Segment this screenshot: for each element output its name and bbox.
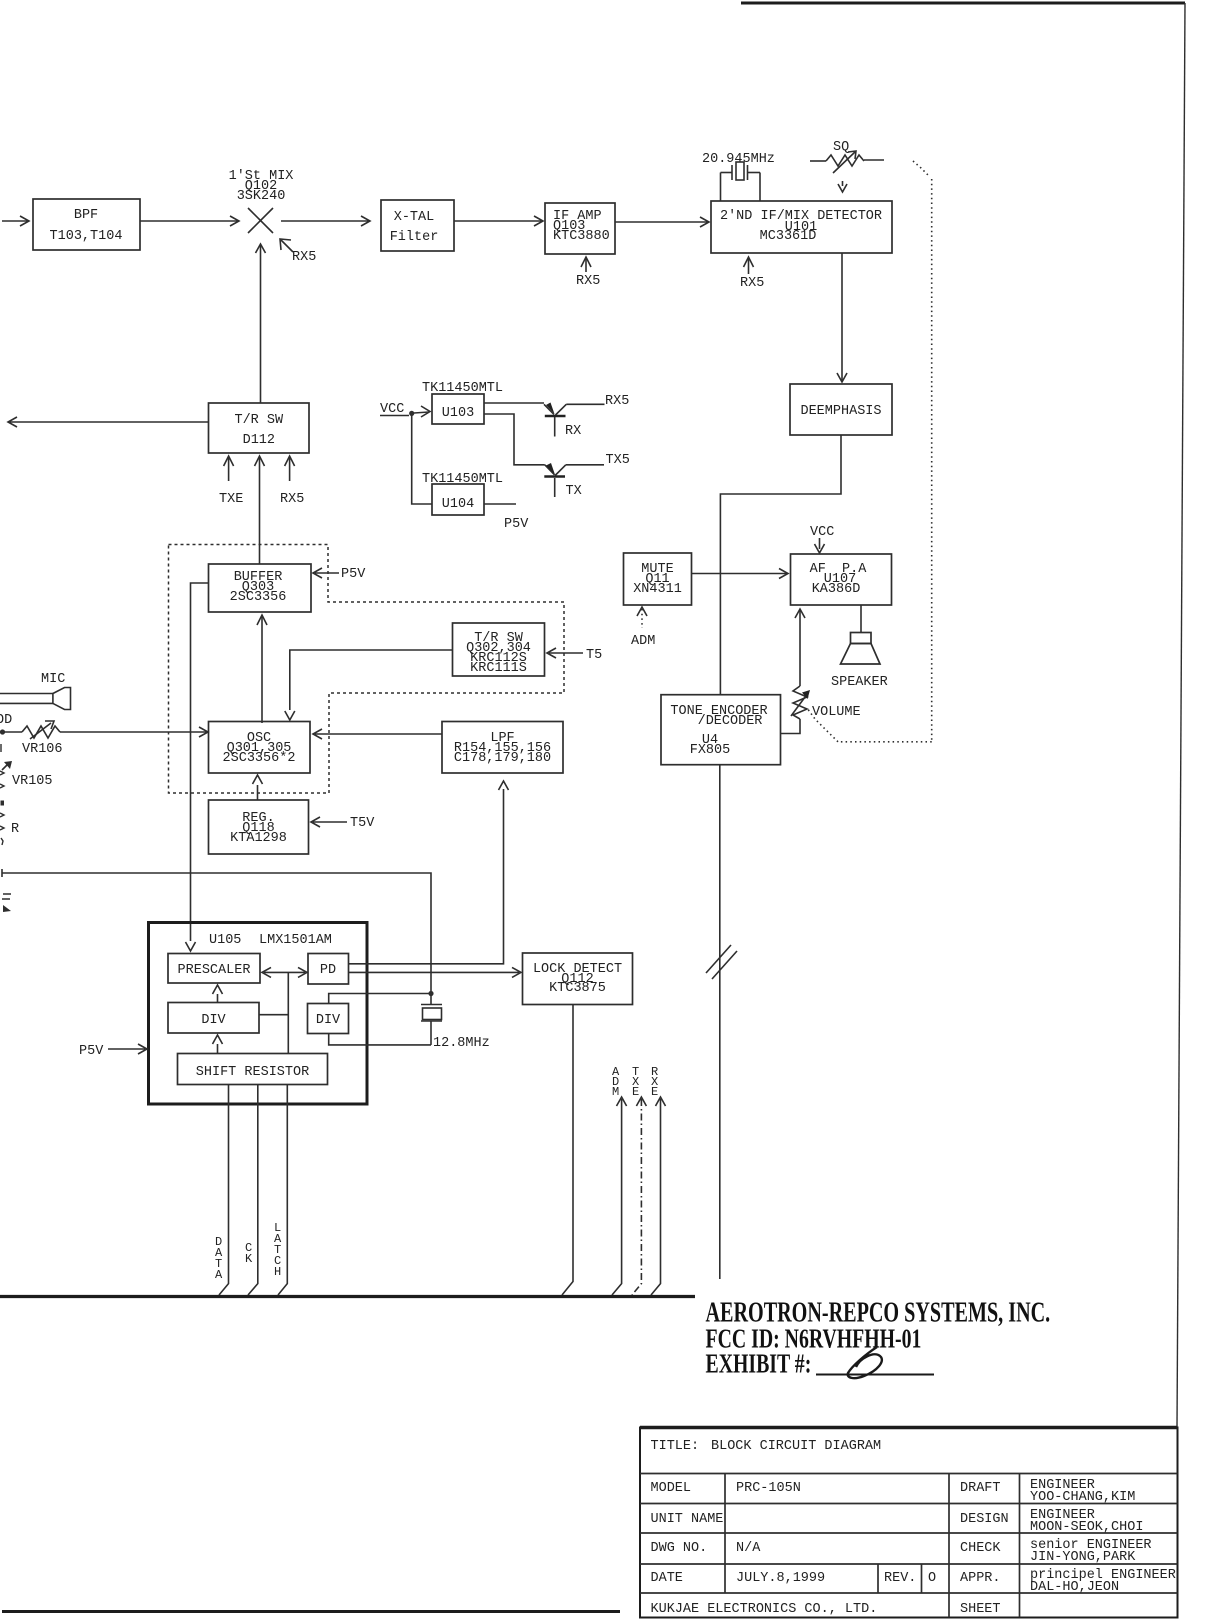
potentiometer SQ: [810, 140, 884, 173]
svg-text:RX5: RX5: [292, 250, 316, 265]
svg-text:DIV: DIV: [201, 1013, 226, 1028]
wire crystal to reference divider top: [329, 994, 431, 1004]
wire tone encoder to bottom bus: [719, 765, 721, 1279]
block SHIFT RESISTOR: [178, 1054, 328, 1085]
edge fragment marks left margin: [0, 744, 19, 912]
svg-text:P5V: P5V: [341, 567, 366, 582]
svg-text:DAL-HO,JEON: DAL-HO,JEON: [1030, 1580, 1119, 1595]
svg-text:R: R: [11, 822, 19, 837]
arrow RX5 into T/R SW: [280, 456, 304, 507]
wire MUTE to AF PA: [692, 569, 789, 579]
block T/R SW Q302,304: [453, 623, 545, 676]
bus control lines: [0, 1295, 695, 1298]
wire buffer to T/R SW: [255, 456, 265, 564]
mixer X symbol Q102: [248, 208, 273, 233]
svg-text:ADM: ADM: [631, 634, 655, 649]
svg-text:BLOCK CIRCUIT DIAGRAM: BLOCK CIRCUIT DIAGRAM: [711, 1439, 881, 1454]
oscillator block Q301,305: [209, 722, 311, 774]
arrow P5V into buffer: [313, 567, 366, 582]
svg-text:TX: TX: [566, 484, 582, 499]
wire deemphasis to tone encoder: [720, 435, 841, 694]
svg-text:UNIT NAME: UNIT NAME: [651, 1512, 724, 1527]
svg-text:A: A: [215, 1268, 223, 1282]
svg-text:VR106: VR106: [22, 742, 63, 757]
block PD phase detector: [308, 954, 349, 985]
svg-text:XN4311: XN4311: [633, 582, 682, 597]
arrow T5V into REG: [311, 816, 375, 831]
arrow RX5 into detector: [740, 257, 764, 291]
svg-text:SQ: SQ: [833, 140, 849, 155]
wire IF AMP to 2nd IF/MIX detector: [615, 217, 709, 227]
svg-text:/DECODER: /DECODER: [698, 714, 763, 729]
wire U103 to RX switch transistor: [484, 402, 544, 404]
break mark on tone wire: [706, 945, 737, 979]
svg-text:REV.: REV.: [884, 1571, 916, 1586]
svg-text:TXE: TXE: [219, 492, 243, 507]
wire LATCH to bus: [274, 1085, 287, 1296]
svg-text:DESIGN: DESIGN: [960, 1512, 1009, 1527]
svg-text:LMX1501AM: LMX1501AM: [259, 933, 332, 948]
svg-text:RX5: RX5: [605, 394, 629, 409]
wire mixer to X-TAL filter: [281, 216, 370, 226]
dashed outline VCO section: [169, 545, 565, 794]
svg-text:KTA1298: KTA1298: [230, 831, 287, 846]
svg-text:H: H: [274, 1265, 281, 1279]
svg-text:FX805: FX805: [690, 743, 731, 758]
wire VR106 to OSC: [60, 727, 208, 737]
block TONE ENCODER/DECODER U4 FX805: [661, 695, 781, 765]
border bottom edge: [2, 1610, 620, 1613]
arrow RXE from bus: [651, 1065, 666, 1295]
amplifier block AF P.A U107 KA386D: [791, 554, 892, 605]
svg-text:SHEET: SHEET: [960, 1602, 1001, 1617]
wire buffer output down to prescaler: [186, 583, 209, 951]
wire U103 to TX switch transistor: [484, 414, 545, 465]
wire antenna input into BPF: [2, 216, 29, 226]
svg-text:T103,T104: T103,T104: [50, 229, 123, 244]
wire T/R switch to antenna (left): [8, 417, 209, 427]
svg-text:EXHIBIT #:: EXHIBIT #:: [706, 1350, 812, 1380]
svg-text:T5: T5: [586, 648, 602, 663]
svg-text:DATE: DATE: [651, 1571, 683, 1586]
svg-text:MOON-SEOK,CHOI: MOON-SEOK,CHOI: [1030, 1520, 1143, 1535]
block T/R SW D112: [209, 403, 310, 453]
svg-text:SPEAKER: SPEAKER: [831, 675, 888, 690]
block DIV reference divider: [308, 1004, 349, 1034]
svg-text:O: O: [928, 1571, 936, 1586]
svg-text:12.8MHz: 12.8MHz: [433, 1036, 490, 1051]
dotted link squelch volume panel: [807, 161, 932, 742]
arrow squelch adjust mark: [838, 181, 847, 192]
arrow ADM from bus: [612, 1065, 627, 1295]
detector block U101 MC3361D: [711, 201, 892, 253]
arrow local osc into mixer from below: [256, 244, 266, 403]
svg-text:KTC3875: KTC3875: [549, 981, 606, 996]
buffer block Q303 2SC3356: [209, 564, 312, 612]
svg-text:U105: U105: [209, 933, 241, 948]
wire PD to lock detect: [349, 967, 522, 977]
crystal 12.8MHz: [421, 994, 490, 1052]
potentiometer VOLUME: [781, 609, 861, 734]
wire crystal to reference divider bottom: [329, 1034, 431, 1045]
svg-text:KUKJAE ELECTRONICS CO., LTD.: KUKJAE ELECTRONICS CO., LTD.: [651, 1602, 878, 1617]
svg-text:RX5: RX5: [576, 274, 600, 289]
wire X-TAL filter to IF AMP: [454, 216, 543, 226]
svg-text:DEEMPHASIS: DEEMPHASIS: [800, 404, 881, 419]
arrow RX5 into IF AMP: [576, 257, 600, 289]
wire OSC to buffer: [257, 615, 267, 723]
wire T/R SW Q302 to OSC: [285, 650, 453, 720]
svg-text:RX5: RX5: [280, 492, 304, 507]
svg-text:U103: U103: [442, 406, 474, 421]
svg-text:SHIFT RESISTOR: SHIFT RESISTOR: [196, 1065, 309, 1080]
wire U104 output P5V: [484, 504, 529, 532]
svg-text:PRC-105N: PRC-105N: [736, 1481, 801, 1496]
svg-text:DRAFT: DRAFT: [960, 1481, 1001, 1496]
svg-text:TX5: TX5: [606, 453, 630, 468]
regulator block U103: [432, 394, 484, 424]
svg-text:JIN-YONG,PARK: JIN-YONG,PARK: [1030, 1550, 1136, 1565]
block LOCK DETECT Q112 KTC3875: [523, 953, 633, 1005]
arrow DIV to prescaler: [213, 985, 223, 1003]
svg-text:KRC111S: KRC111S: [470, 661, 527, 676]
title block row DATE: [651, 1568, 1176, 1595]
title block row UNIT NAME: [651, 1508, 1144, 1535]
svg-text:MIC: MIC: [41, 672, 65, 687]
svg-text:VR105: VR105: [12, 774, 53, 789]
arrow ADM into MUTE: [631, 607, 655, 649]
PLL block U105 LMX1501AM: [149, 923, 368, 1105]
svg-text:YOO-CHANG,KIM: YOO-CHANG,KIM: [1030, 1490, 1135, 1505]
transistor RX switch: [544, 394, 629, 439]
arrow TXE into T/R SW: [219, 456, 243, 507]
svg-text:T/R SW: T/R SW: [234, 413, 284, 428]
svg-text:RX5: RX5: [740, 276, 764, 291]
title block text TITLE: [651, 1439, 882, 1454]
wire CK to bus: [245, 1085, 258, 1296]
block PRESCALER: [168, 954, 260, 984]
handwritten exhibit number 6: [816, 1347, 934, 1378]
node MOD input: [0, 713, 22, 735]
svg-text:MODEL: MODEL: [651, 1481, 692, 1496]
arrow RX5 at mixer: [280, 239, 316, 265]
filter block BPF T103,T104: [33, 199, 140, 250]
svg-text:U104: U104: [442, 497, 474, 512]
title block row company: [651, 1602, 1001, 1617]
svg-text:X-TAL: X-TAL: [394, 210, 435, 225]
speaker SPEAKER: [831, 605, 888, 690]
wire VCC rail down to U104: [412, 413, 432, 504]
title block row DWG NO: [651, 1538, 1152, 1565]
wire BPF to 1st mixer: [140, 216, 239, 226]
block MUTE Q11 XN4311: [624, 553, 692, 605]
svg-text:2SC3356*2: 2SC3356*2: [223, 751, 296, 766]
svg-text:P5V: P5V: [79, 1044, 104, 1059]
title block table: [640, 1428, 1178, 1618]
svg-text:Filter: Filter: [390, 230, 439, 245]
svg-text:3SK240: 3SK240: [237, 189, 286, 204]
svg-text:VOLUME: VOLUME: [812, 705, 861, 720]
svg-text:K: K: [245, 1252, 253, 1266]
arrow TXE from bus: [632, 1065, 646, 1295]
svg-text:T5V: T5V: [350, 816, 375, 831]
wire PD output to LPF: [349, 781, 509, 964]
svg-text:PRESCALER: PRESCALER: [178, 963, 251, 978]
text FCC exhibit heading: [706, 1297, 1051, 1379]
regulator block REG Q118 KTA1298: [209, 800, 309, 854]
svg-text:KTC3880: KTC3880: [553, 229, 610, 244]
svg-text:KA386D: KA386D: [812, 582, 861, 597]
svg-text:P5V: P5V: [504, 517, 529, 532]
filter block LPF R154,155,156: [442, 722, 563, 774]
svg-text:TITLE:: TITLE:: [651, 1439, 700, 1454]
potentiometer VR105 (edge cut): [2, 761, 53, 789]
arrow T5 into T/R SW Q302: [547, 648, 602, 663]
mixer Q102 label: [229, 169, 294, 204]
microphone MIC: [0, 672, 71, 710]
wire reference line to left edge: [2, 869, 431, 991]
arrow shift register to DIV: [213, 1035, 223, 1054]
wire prescaler PD link: [262, 967, 307, 1053]
svg-text:M: M: [612, 1085, 619, 1099]
svg-text:N/A: N/A: [736, 1541, 761, 1556]
power rail VCC: [380, 402, 430, 417]
svg-text:C178,179,180: C178,179,180: [454, 751, 551, 766]
svg-text:CHECK: CHECK: [960, 1541, 1001, 1556]
potentiometer VR106: [22, 721, 63, 757]
block DEEMPHASIS: [790, 384, 892, 435]
wire lock detect to bus: [562, 1005, 573, 1296]
node crystal junction: [428, 991, 433, 996]
svg-text:JULY.8,1999: JULY.8,1999: [736, 1571, 825, 1586]
wire detector to deemphasis: [837, 253, 847, 382]
transistor TX switch: [544, 453, 630, 499]
svg-text:2SC3356: 2SC3356: [230, 590, 287, 605]
svg-text:E: E: [651, 1085, 658, 1099]
regulator block U104: [432, 484, 484, 515]
filter block X-TAL Filter: [381, 200, 454, 251]
block DIV main divider: [168, 1003, 259, 1034]
svg-text:OD: OD: [0, 713, 12, 728]
svg-text:APPR.: APPR.: [960, 1571, 1001, 1586]
svg-text:DIV: DIV: [316, 1013, 341, 1028]
svg-text:20.945MHz: 20.945MHz: [702, 152, 775, 167]
amplifier block IF AMP Q103 KTC3880: [545, 203, 615, 254]
svg-text:VCC: VCC: [810, 525, 834, 540]
svg-text:PD: PD: [320, 963, 336, 978]
svg-text:RX: RX: [565, 424, 581, 439]
wire DIV to PD junction: [259, 1014, 288, 1016]
wire REG to OSC: [253, 775, 263, 800]
svg-text:D112: D112: [243, 433, 275, 448]
wire DATA to bus: [215, 1085, 229, 1296]
arrow P5V into PLL block: [79, 1044, 147, 1059]
svg-text:BPF: BPF: [74, 208, 98, 223]
wire LPF to OSC: [313, 729, 442, 739]
title block row MODEL: [651, 1478, 1136, 1505]
svg-text:MC3361D: MC3361D: [760, 229, 817, 244]
crystal 20.945MHz: [721, 162, 761, 201]
svg-text:DWG NO.: DWG NO.: [651, 1541, 708, 1556]
svg-text:E: E: [632, 1085, 639, 1099]
power VCC into AF PA: [810, 525, 834, 553]
